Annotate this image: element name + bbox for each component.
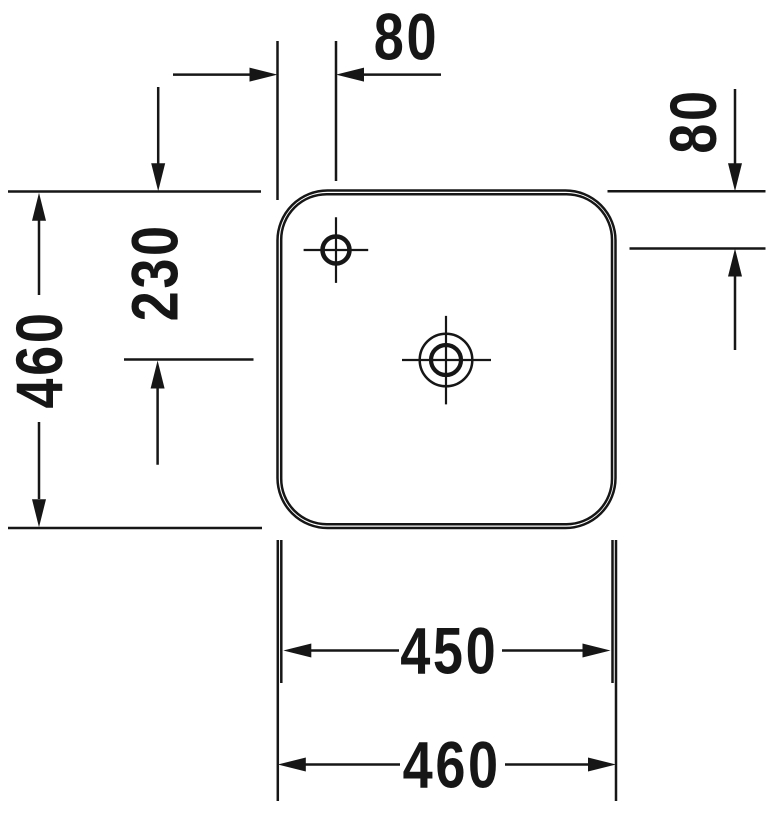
faucet hole centerline vertical [335,217,337,283]
svg-text:450: 450 [400,613,498,687]
extension line bottom right 450 [611,540,614,683]
svg-text:460: 460 [2,310,76,408]
arrowhead dim 450 pointing left [283,644,311,658]
drain centerline horizontal [402,359,491,361]
dim 460 bottom line right segment [505,763,589,766]
extension line bottom left 460 [277,540,280,801]
dim 460 bottom line left segment [305,763,400,766]
svg-text:230: 230 [117,223,191,321]
extension line bottom right 460 [615,540,618,801]
arrowhead dim 230 pointing up [151,361,165,389]
arrowhead dim 460 left pointing down [32,499,46,527]
dim 80 top left segment [173,73,250,76]
arrowhead dim 80 top pointing right [250,68,278,82]
extension line bottom left 450 [280,540,283,683]
arrowhead dim 80 right pointing up [728,249,742,277]
basin outer rim outline 460x460 [278,191,616,529]
arrowhead dim 460 bottom pointing left [278,758,306,772]
dim 230 upper shaft [157,87,160,164]
extension line faucet center (top dim 80) [335,41,338,181]
arrowhead dim 450 pointing right [583,644,611,658]
drain inner circle [431,345,461,375]
svg-text:80: 80 [656,88,730,153]
dim 450 line left segment [311,649,399,652]
reference line faucet center level right [630,247,766,250]
arrowhead dim 460 bottom pointing right [588,758,616,772]
svg-text:80: 80 [374,0,439,74]
reference line drain center level [124,358,254,361]
basin inner rim outline 450x450 [281,194,612,524]
extension line basin left edge (top dim 80) [276,41,279,200]
reference line basin bottom level left [8,527,262,530]
drain outer circle [420,334,473,387]
arrowhead dim 230 pointing down [151,163,165,191]
dim 80 right lower shaft [734,276,737,350]
dim 230 lower shaft [156,388,159,465]
dim 80 right upper shaft [734,89,737,164]
dim 80 top right segment [363,73,441,76]
arrowhead dim 80 top pointing left [336,68,364,82]
faucet hole centerline horizontal [304,249,369,251]
dim 450 line right segment [502,649,583,652]
arrowhead dim 80 right pointing down [728,163,742,191]
svg-text:460: 460 [403,727,501,801]
arrowhead dim 460 left pointing up [32,193,46,221]
dim 460 left upper shaft [38,220,41,295]
reference line basin top level left [8,190,261,193]
dim 460 left lower shaft [38,422,41,499]
drain centerline vertical [445,316,447,405]
reference line basin top level right [608,190,766,193]
faucet hole circle [323,237,350,264]
